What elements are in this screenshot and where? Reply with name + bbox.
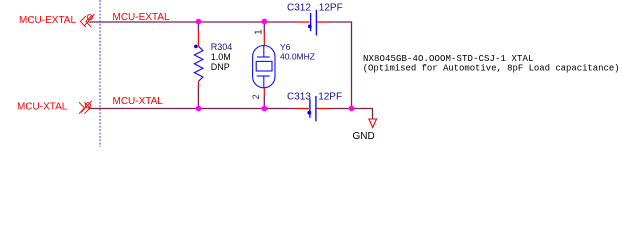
wire junction to GND xyxy=(352,109,373,120)
svg-text:40.0MHZ: 40.0MHZ xyxy=(280,51,315,61)
wire resistor branch vertical (bottom stub) xyxy=(197,86,199,109)
svg-text:C312: C312 xyxy=(287,3,311,14)
svg-text:MCU-XTAL: MCU-XTAL xyxy=(17,102,68,113)
wire crystal branch vertical (top stub) xyxy=(263,22,265,33)
svg-text:2: 2 xyxy=(251,94,261,99)
svg-text:1.0M: 1.0M xyxy=(211,52,231,62)
svg-text:(Optimised for Automotive, 8pF: (Optimised for Automotive, 8pF Load capa… xyxy=(363,63,620,73)
resistor R304 xyxy=(194,31,203,87)
svg-text:GND: GND xyxy=(353,131,375,142)
svg-text:12PF: 12PF xyxy=(318,91,342,102)
svg-text:MCU-EXTAL: MCU-EXTAL xyxy=(113,12,170,23)
off-page connector MCU-EXTAL (left, double chevron with circle) xyxy=(80,14,94,27)
wire vertical right (C312 to junction) xyxy=(351,22,353,109)
junction dot top resistor xyxy=(196,19,202,25)
junction dot top crystal xyxy=(261,19,267,25)
svg-text:R304: R304 xyxy=(211,42,233,52)
svg-text:DNP: DNP xyxy=(211,62,230,72)
capacitor C313 xyxy=(297,96,330,121)
svg-text:C313: C313 xyxy=(287,91,311,102)
junction dot C313/GND xyxy=(349,106,355,112)
wire C312 right to corner xyxy=(330,21,353,23)
svg-text:1: 1 xyxy=(253,29,264,35)
svg-text:MCU-EXTAL: MCU-EXTAL xyxy=(19,15,76,26)
wire MCU-EXTAL horizontal (top) xyxy=(89,21,297,23)
svg-text:MCU-XTAL: MCU-XTAL xyxy=(113,96,164,107)
svg-text:NX8O45GB-4O.OOOM-STD-CSJ-1 XTA: NX8O45GB-4O.OOOM-STD-CSJ-1 XTAL xyxy=(363,54,534,64)
junction dot bottom crystal xyxy=(261,106,267,112)
svg-text:12PF: 12PF xyxy=(319,3,343,14)
wire C313 right to junction xyxy=(329,108,352,110)
capacitor C312 xyxy=(297,10,330,36)
ground symbol xyxy=(369,119,377,128)
crystal Y6 xyxy=(253,32,275,96)
wire MCU-XTAL horizontal (bottom) xyxy=(89,108,297,110)
off-page connector MCU-XTAL (left, double chevron with circle) xyxy=(79,101,92,114)
wire crystal branch vertical (bottom stub) xyxy=(263,96,265,109)
hierarchy boundary dotted line xyxy=(99,0,101,147)
junction dot bottom resistor xyxy=(196,106,202,112)
wire resistor branch vertical (top stub) xyxy=(197,22,199,32)
